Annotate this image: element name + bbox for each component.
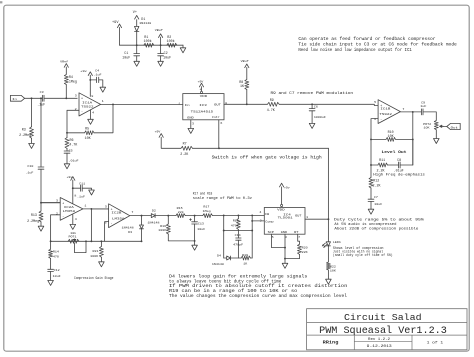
capacitor C11 .1uF bypass xyxy=(73,182,92,198)
svg-text:Can operate as feed forward or: Can operate as feed forward or feedback … xyxy=(298,37,436,42)
title text RRing xyxy=(323,340,339,345)
title text Circuit Salad xyxy=(344,312,422,323)
svg-text:R3: R3 xyxy=(22,128,26,132)
svg-text:LED1: LED1 xyxy=(333,241,341,244)
node junction R4 bias xyxy=(65,97,67,99)
svg-text:C11: C11 xyxy=(79,182,85,185)
wire R17 to IC4 FB xyxy=(212,214,264,216)
ground below C2 xyxy=(158,61,164,66)
svg-text:R22: R22 xyxy=(330,265,336,268)
svg-text:At 5% audio is uncompressed: At 5% audio is uncompressed xyxy=(334,222,396,227)
svg-text:C1: C1 xyxy=(124,51,128,55)
note: can operate as feed forward xyxy=(298,37,457,53)
svg-text:.1uF: .1uF xyxy=(25,172,33,175)
node junction R13 xyxy=(40,202,42,204)
svg-text:2.2Meg: 2.2Meg xyxy=(19,133,31,137)
resistor R19 1K xyxy=(241,254,252,265)
svg-text:R12: R12 xyxy=(373,179,379,183)
wire IC4 GND down xyxy=(284,234,286,263)
svg-text:SCP: SCP xyxy=(268,231,275,234)
svg-text:10k: 10k xyxy=(70,231,76,235)
node comp ladder right junction xyxy=(251,214,253,216)
wire to R9 xyxy=(247,103,268,105)
svg-text:C12: C12 xyxy=(54,269,60,272)
wire IC2B output xyxy=(130,215,152,217)
node junction R14/feedback xyxy=(50,240,52,242)
node C13 ground junction xyxy=(194,240,196,242)
svg-text:470K: 470K xyxy=(231,225,239,228)
wire IC2A output xyxy=(83,208,109,210)
ground below C13 xyxy=(192,241,198,250)
svg-text:LM358: LM358 xyxy=(112,217,125,220)
svg-text:D2: D2 xyxy=(152,209,156,212)
svg-text:TS922: TS922 xyxy=(379,113,392,116)
svg-text:C10: C10 xyxy=(27,165,33,168)
svg-text:PWM Squeasal Ver1.2.3: PWM Squeasal Ver1.2.3 xyxy=(319,325,447,337)
svg-text:R6: R6 xyxy=(70,138,74,142)
resistor R2 100k xyxy=(167,35,177,47)
svg-text:470: 470 xyxy=(53,255,59,258)
svg-text:100k: 100k xyxy=(167,39,175,43)
ground right end of bias bus xyxy=(180,45,186,53)
note compression gain stage xyxy=(74,276,113,281)
svg-text:2.2K: 2.2K xyxy=(180,152,188,156)
wire IC2A + input xyxy=(41,202,60,204)
svg-text:10K: 10K xyxy=(388,134,394,138)
op-amp IC2B LM358 xyxy=(105,204,134,228)
output connector Out xyxy=(447,123,460,129)
svg-text:1K: 1K xyxy=(240,84,244,88)
svg-text:GND: GND xyxy=(187,116,194,119)
svg-text:High Freq de-emphasis: High Freq de-emphasis xyxy=(373,173,425,178)
capacitor C1 10uF xyxy=(122,45,139,61)
wire POT2 wiper to output connector xyxy=(443,126,447,128)
resistor R20 22K xyxy=(285,244,308,258)
svg-text:10K: 10K xyxy=(330,269,336,272)
power VRef arrow above R4 xyxy=(60,59,68,67)
svg-text:.01uF: .01uF xyxy=(69,159,79,162)
svg-text:Cntr: Cntr xyxy=(212,116,220,119)
ground IC1A pin4 xyxy=(88,110,94,124)
svg-text:R9: R9 xyxy=(270,98,274,102)
wire input line xyxy=(25,97,43,99)
title text date xyxy=(367,344,392,348)
label Level Out xyxy=(382,150,407,155)
svg-text:1N4148: 1N4148 xyxy=(148,221,160,224)
svg-text:POT2: POT2 xyxy=(423,123,431,126)
svg-text:+: + xyxy=(62,201,64,205)
svg-text:C13: C13 xyxy=(198,223,204,226)
wire C6 node to IC1B xyxy=(312,104,378,105)
wire IC3 Cntr to gate line xyxy=(218,120,220,149)
svg-text:R13: R13 xyxy=(31,213,37,217)
svg-text:-: - xyxy=(111,221,113,225)
svg-text:IC2A: IC2A xyxy=(64,206,74,209)
IC3 TS12A4515 analog switch xyxy=(178,89,228,126)
capacitor C5 .01uF xyxy=(64,149,79,163)
svg-text:100k: 100k xyxy=(144,39,152,43)
svg-text:If PWM driven to absolute cuto: If PWM driven to absolute cutoff it crea… xyxy=(169,284,348,289)
svg-text:1000uF: 1000uF xyxy=(314,116,326,119)
svg-text:1uF: 1uF xyxy=(420,105,426,108)
node D3 junction xyxy=(141,215,143,217)
resistor R22 10K xyxy=(326,262,336,279)
node junction D1/C1/R1 xyxy=(136,44,138,46)
svg-text:2.2K: 2.2K xyxy=(377,169,385,173)
svg-text:TS922: TS922 xyxy=(81,106,94,109)
svg-text:Need low noise and low impedan: Need low noise and low impedance output … xyxy=(298,48,412,53)
svg-text:C7: C7 xyxy=(374,196,378,199)
svg-text:R7: R7 xyxy=(183,142,187,146)
svg-text:4.7K: 4.7K xyxy=(267,108,275,112)
node VBuf junction R1/R2/C2 xyxy=(155,28,163,46)
svg-text:.01uF: .01uF xyxy=(394,169,404,173)
svg-text:Out: Out xyxy=(451,126,458,129)
svg-text:About 22dB of compression poss: About 22dB of compression possible xyxy=(334,227,418,232)
svg-text:1N4148: 1N4148 xyxy=(212,263,224,266)
node junction Cntr xyxy=(218,147,220,149)
note LED shows compression xyxy=(333,246,393,258)
wire IC1B output xyxy=(400,111,412,113)
svg-text:IC3: IC3 xyxy=(199,104,207,107)
svg-text:1N4148: 1N4148 xyxy=(122,227,134,230)
svg-text:+9v: +9v xyxy=(67,176,73,179)
resistor R17 1Meg xyxy=(203,206,213,218)
resistor R5 10K feedback xyxy=(85,126,94,140)
svg-text:R17 and R18: R17 and R18 xyxy=(193,192,213,197)
ground IC4 GND xyxy=(282,263,288,268)
svg-text:IC1A: IC1A xyxy=(82,102,92,105)
svg-text:100K: 100K xyxy=(158,229,166,232)
svg-text:V+: V+ xyxy=(133,10,137,14)
svg-text:470pF: 470pF xyxy=(233,244,243,247)
svg-text:FB: FB xyxy=(265,213,269,216)
power +9v arrow IC2A pin8 xyxy=(67,176,75,204)
svg-text:R19 can be in a range of 100 t: R19 can be in a range of 100 to 10K or s… xyxy=(169,289,298,294)
ground IC2A pin4 xyxy=(70,215,76,230)
svg-text:+9v: +9v xyxy=(80,70,87,73)
wire IC4 RT to R20 xyxy=(298,234,300,244)
capacitor C3 .1uF input coupling xyxy=(37,91,77,107)
svg-text:D4: D4 xyxy=(217,254,221,257)
note high freq de-emphasis xyxy=(373,173,425,178)
svg-text:R5: R5 xyxy=(85,126,89,130)
svg-text:2.2Meg: 2.2Meg xyxy=(27,219,39,223)
IC4 VDD pin and +9v arrow xyxy=(277,183,290,211)
node R10 line right xyxy=(412,138,414,140)
svg-text:VRef: VRef xyxy=(60,59,68,63)
svg-text:Rev 1.2.2: Rev 1.2.2 xyxy=(368,337,390,341)
note D4 lowers loop gain xyxy=(169,275,348,299)
svg-text:R19: R19 xyxy=(242,254,248,257)
power +9v arrow for IC1A pin8 xyxy=(80,70,92,96)
svg-text:C4: C4 xyxy=(95,69,99,72)
resistor R8 1K from VBuf xyxy=(239,67,249,104)
resistor R18 470K xyxy=(231,215,241,230)
wire gate line horizontal xyxy=(193,147,329,149)
capacitor C4 .1uF bypass xyxy=(90,69,103,87)
note R9 C7 remove PWM xyxy=(271,91,354,96)
node junction IC4 OUT xyxy=(327,218,329,220)
potentiometer POT2 10K level xyxy=(423,120,443,129)
input connector In xyxy=(10,95,24,101)
svg-text:OUT: OUT xyxy=(295,214,302,217)
svg-text:R18: R18 xyxy=(233,219,239,222)
svg-text:IC2B: IC2B xyxy=(111,212,121,215)
svg-text:RRing: RRing xyxy=(323,340,339,345)
svg-text:D1: D1 xyxy=(141,17,145,21)
ground below C5 xyxy=(64,164,70,169)
svg-text:C6: C6 xyxy=(314,106,318,109)
capacitor C14 470pF xyxy=(233,231,243,259)
svg-text:+9v: +9v xyxy=(284,186,290,189)
node R11 line left xyxy=(370,164,372,166)
wire IC3 OUT line xyxy=(224,103,247,105)
svg-text:OUT: OUT xyxy=(214,104,221,107)
svg-text:4.7K: 4.7K xyxy=(69,143,77,147)
svg-text:R20: R20 xyxy=(302,246,308,249)
node junction R3 xyxy=(31,97,33,99)
svg-text:-: - xyxy=(62,214,64,218)
ground below R13 xyxy=(38,226,44,231)
node C13 junction xyxy=(194,215,196,217)
node junction C11 tap xyxy=(72,187,74,189)
svg-text:C8: C8 xyxy=(397,158,401,162)
diode D4 1N4148 loop gain xyxy=(212,254,241,265)
svg-text:In: In xyxy=(185,104,190,107)
svg-text:C14: C14 xyxy=(235,234,241,237)
node R20/GND junction xyxy=(284,258,286,260)
capacitor C9 1uF output coupling xyxy=(413,101,437,120)
svg-text:IC1B: IC1B xyxy=(380,108,390,111)
diode D2 1N4148 xyxy=(148,209,169,224)
resistor R15 22k xyxy=(176,207,185,217)
node D3 bottom junction xyxy=(141,240,143,242)
svg-text:10uF: 10uF xyxy=(163,55,171,59)
wire IC2B - input loop xyxy=(105,222,109,242)
svg-text:scale range of PWM to 0-3v: scale range of PWM to 0-3v xyxy=(193,196,252,201)
svg-text:9-12-2013: 9-12-2013 xyxy=(367,344,392,348)
diode D3 1N4148 feedback xyxy=(122,216,144,242)
ground right of C4 xyxy=(100,87,106,92)
node feedback/R6 junction xyxy=(66,132,68,134)
svg-text:R15: R15 xyxy=(177,207,183,210)
svg-text:to always leave teeny bit duty: to always leave teeny bit duty cycle off… xyxy=(169,279,282,284)
title block frame xyxy=(307,309,467,350)
note duty cycle range xyxy=(334,217,425,231)
svg-text:10K: 10K xyxy=(85,136,91,140)
resistor R3 2.2Meg xyxy=(19,98,33,143)
svg-text:22k: 22k xyxy=(178,210,184,214)
svg-text:10uF: 10uF xyxy=(374,203,382,206)
node junction C6 xyxy=(311,103,313,105)
capacitor C6 1000uF PWM filter xyxy=(309,104,326,123)
node SCP/GND junction xyxy=(284,247,286,249)
resistor R12 2.2K xyxy=(369,177,381,199)
wire bias bus xyxy=(120,44,184,46)
svg-text:-: - xyxy=(81,110,83,114)
svg-text:D3: D3 xyxy=(128,231,132,234)
svg-text:(small duty cyle off time of 5: (small duty cyle off time of 5%) xyxy=(333,253,393,258)
IC4 TL5001 PWM controller xyxy=(259,208,308,240)
svg-text:TS12A4515: TS12A4515 xyxy=(191,111,214,114)
op-amp IC1B TS922 xyxy=(374,100,405,124)
svg-text:Circuit Salad: Circuit Salad xyxy=(344,312,422,323)
node junction C10 branch xyxy=(40,97,42,99)
svg-text:R21: R21 xyxy=(93,250,99,253)
wire rectifier line xyxy=(168,215,176,217)
svg-text:1Meg: 1Meg xyxy=(69,80,77,84)
svg-text:VDD: VDD xyxy=(277,208,285,211)
svg-text:10uF: 10uF xyxy=(122,55,130,59)
svg-text:.1uF: .1uF xyxy=(94,73,102,76)
svg-text:Compression Gain Stage: Compression Gain Stage xyxy=(74,276,113,281)
node POT1 wiper tie xyxy=(85,240,87,242)
svg-text:Switch is off when gate voltag: Switch is off when gate voltage is high xyxy=(212,155,323,160)
svg-text:C2: C2 xyxy=(164,51,168,55)
wire output down to bus xyxy=(90,209,92,241)
svg-text:C3: C3 xyxy=(40,91,44,94)
resistor R16 100K xyxy=(158,216,194,241)
wire IC1A feedback loop xyxy=(67,104,113,132)
LED LED1 compression indicator xyxy=(322,241,341,262)
ground below R3 xyxy=(29,143,35,148)
note switch off when gate high xyxy=(212,155,323,160)
svg-text:In: In xyxy=(12,98,17,101)
node R10 line left xyxy=(370,138,372,140)
svg-text:.1uF: .1uF xyxy=(77,196,85,199)
corner artifact xyxy=(0,1,2,3)
svg-text:10uF: 10uF xyxy=(53,275,61,278)
svg-text:Level Out: Level Out xyxy=(382,150,407,155)
node D2 cathode junction xyxy=(167,215,169,217)
resistor R11 2.2K xyxy=(371,158,399,173)
ground right of C11 xyxy=(89,190,95,195)
svg-text:RT: RT xyxy=(294,231,299,234)
svg-text:2.2K: 2.2K xyxy=(373,184,381,188)
svg-text:R16: R16 xyxy=(160,225,166,228)
wire comp ladder mid rung xyxy=(223,230,253,232)
svg-text:VBuf: VBuf xyxy=(241,59,249,63)
node IC2A output junction xyxy=(90,208,92,210)
svg-text:+9V: +9V xyxy=(155,131,161,134)
svg-text:R9 and C7 remove PWM modulatio: R9 and C7 remove PWM modulation xyxy=(271,91,354,96)
capacitor C10 .1uF side chain xyxy=(25,98,60,202)
resistor R7 2.2K pullup xyxy=(180,142,192,157)
wire IC4 OUT xyxy=(305,218,328,220)
ground below C6 xyxy=(309,123,315,128)
capacitor C2 10uF xyxy=(158,45,172,61)
wire IC4 SCP to GND xyxy=(272,234,286,247)
svg-text:100K: 100K xyxy=(90,255,98,258)
svg-text:22K: 22K xyxy=(302,251,308,254)
svg-text:The value changes the compress: The value changes the compression curve … xyxy=(169,294,348,299)
wire IC1B feedback verticals xyxy=(371,112,413,177)
op-amp IC2A LM358 xyxy=(56,194,87,221)
resistor R1 100k xyxy=(144,35,154,47)
svg-text:D4 lowers loop gain for extrem: D4 lowers loop gain for extremely large … xyxy=(169,275,308,280)
capacitor C8 .01uF xyxy=(394,139,413,172)
power +9v arrow for R7 xyxy=(155,131,181,149)
resistor R6 4.7K xyxy=(65,133,77,151)
resistor R13 2.2Meg xyxy=(27,203,43,227)
capacitor C7 10uF xyxy=(368,196,382,209)
title text Rev xyxy=(368,337,390,341)
resistor R4 1Meg to VRef xyxy=(64,67,77,98)
title text sheet xyxy=(427,340,444,345)
svg-text:R14: R14 xyxy=(53,251,59,254)
capacitor C13 10uF xyxy=(190,216,206,241)
ground below C7 xyxy=(368,209,374,214)
node comp ladder left junction xyxy=(223,214,225,216)
node bus/output junction xyxy=(90,240,92,242)
svg-text:R11: R11 xyxy=(379,158,385,162)
svg-text:C9: C9 xyxy=(421,101,425,104)
node R18 top junction xyxy=(237,214,239,216)
svg-text:Comp: Comp xyxy=(265,221,274,224)
power +9V rail arrow (top-left of bias network) xyxy=(112,20,122,45)
wire IC2B + input xyxy=(91,208,108,210)
ground IC3 GND pin xyxy=(188,120,194,134)
wire feedback bus xyxy=(51,240,142,242)
wire R15 to C13 node xyxy=(185,215,203,217)
resistor R10 10K feedback xyxy=(371,130,413,141)
ground below R22 xyxy=(326,279,332,284)
svg-text:C5: C5 xyxy=(69,149,73,152)
svg-text:Tie side chain input to C3 or: Tie side chain input to C3 or at C6 node… xyxy=(298,43,457,48)
diode D1 1N4148 xyxy=(135,17,152,45)
power VBuf arrow above R8 xyxy=(241,59,249,68)
wire IC1A output line to IC3 xyxy=(101,103,183,105)
svg-text:R8: R8 xyxy=(239,80,243,84)
svg-text:Duty Cycle range 5% to about 9: Duty Cycle range 5% to about 95% xyxy=(334,217,425,222)
ground below C12 xyxy=(48,280,54,285)
wire R9 to C6 node xyxy=(279,103,312,105)
svg-text:GND: GND xyxy=(281,231,288,234)
node IC1B output junction xyxy=(412,111,414,113)
svg-text:TL5001: TL5001 xyxy=(278,216,293,219)
ground below R21 xyxy=(99,262,105,267)
svg-text:10uF: 10uF xyxy=(197,228,205,231)
title text PWM Squeasal Ver1.2.3 xyxy=(319,325,447,337)
svg-text:VBuf: VBuf xyxy=(155,28,163,32)
op-amp IC1A TS922 xyxy=(75,93,105,116)
node junction R8 bottom xyxy=(246,103,248,105)
svg-text:R4: R4 xyxy=(69,75,73,79)
resistor R21 100K xyxy=(90,240,103,261)
wire comp to IC4 xyxy=(251,220,264,222)
svg-text:1 of 1: 1 of 1 xyxy=(427,340,444,345)
wire comp ladder left vertical xyxy=(223,215,225,258)
svg-text:1K: 1K xyxy=(243,262,247,265)
wire comp ladder right vertical xyxy=(251,215,253,258)
svg-text:R17: R17 xyxy=(203,206,209,209)
wire gate line vertical xyxy=(327,148,329,242)
resistor R9 4.7K xyxy=(267,98,279,112)
potentiometer POT1 10k xyxy=(68,231,86,253)
wire IC2A - input loop xyxy=(51,215,61,242)
ground below POT2 xyxy=(434,130,440,144)
node IC1A output junction xyxy=(112,103,114,105)
svg-text:1N4148: 1N4148 xyxy=(139,22,151,25)
node junction C4 tap xyxy=(89,79,91,81)
IC3 VDD pin circle and +9V arrow xyxy=(198,80,204,93)
svg-text:POT1: POT1 xyxy=(69,236,77,239)
resistor R14 470 xyxy=(49,241,60,269)
svg-text:-: - xyxy=(380,118,382,122)
svg-text:LM358: LM358 xyxy=(63,210,76,213)
svg-text:1Meg: 1Meg xyxy=(203,210,211,213)
